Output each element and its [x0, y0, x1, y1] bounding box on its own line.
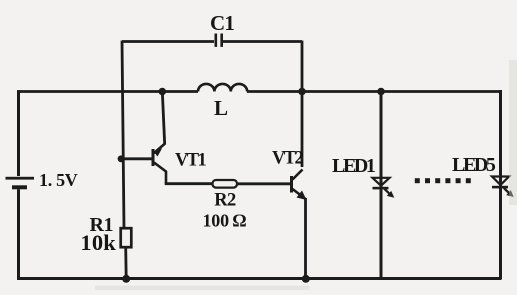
- transistor VT1 (PNP): [152, 144, 167, 184]
- wire: LED5 branch vertical (right edge): [499, 90, 502, 279]
- node: supply rail / VT1 emitter junction: [159, 88, 167, 96]
- wire: right vertical C1 to supply rail and down to VT2 collector: [301, 41, 304, 167]
- wire: bottom rail: [17, 277, 502, 280]
- svg-text:VT1: VT1: [175, 151, 206, 171]
- resistor R2: [213, 180, 238, 188]
- node: bottom rail / VT2 emitter junction: [302, 275, 310, 283]
- node: supply rail / LED1 branch junction: [377, 88, 385, 96]
- wire: top feedback rail (C1 branch): [122, 40, 302, 43]
- scan smudge bottom: [95, 286, 310, 291]
- battery 1.5V: [6, 177, 35, 190]
- wire: VT1 emitter up to supply rail: [162, 91, 164, 145]
- svg-text:C1: C1: [210, 11, 234, 35]
- node: VT1 base junction: [118, 155, 125, 162]
- LED5: [492, 177, 514, 198]
- wire: supply rail (second horizontal rail): [17, 90, 502, 93]
- scan smudge right edge: [509, 60, 517, 205]
- node: supply rail / C1-VT2 collector junction: [298, 88, 306, 96]
- svg-text:LED5: LED5: [452, 154, 496, 176]
- wire: left battery branch upper: [17, 90, 20, 176]
- svg-text:R2: R2: [214, 191, 236, 211]
- wire: left vertical from C1 down through base node and R1 to bottom rail: [122, 41, 126, 279]
- wire: R2 to VT2 base: [237, 182, 291, 185]
- svg-text:100 Ω: 100 Ω: [202, 211, 246, 231]
- transistor VT2 (NPN): [290, 170, 307, 201]
- svg-text:LED1: LED1: [332, 155, 375, 177]
- capacitor C1: [215, 34, 224, 47]
- wire: left battery branch lower: [17, 189, 20, 279]
- wire: VT2 emitter down to bottom rail: [304, 198, 307, 278]
- svg-text:L: L: [214, 96, 228, 120]
- node: bottom rail / R1 junction: [122, 275, 130, 283]
- wire: LED1 branch vertical: [380, 91, 383, 278]
- svg-text:10k: 10k: [80, 230, 116, 255]
- LED1: [373, 178, 395, 198]
- ellipsis dots (LED2...LED4): [415, 178, 471, 183]
- inductor L: [198, 84, 247, 92]
- svg-text:VT2: VT2: [272, 149, 303, 169]
- wire: VT1 base wire: [121, 157, 153, 160]
- wire: VT1 collector to R2: [165, 182, 213, 185]
- svg-text:1. 5V: 1. 5V: [39, 170, 78, 190]
- resistor R1: [121, 228, 132, 247]
